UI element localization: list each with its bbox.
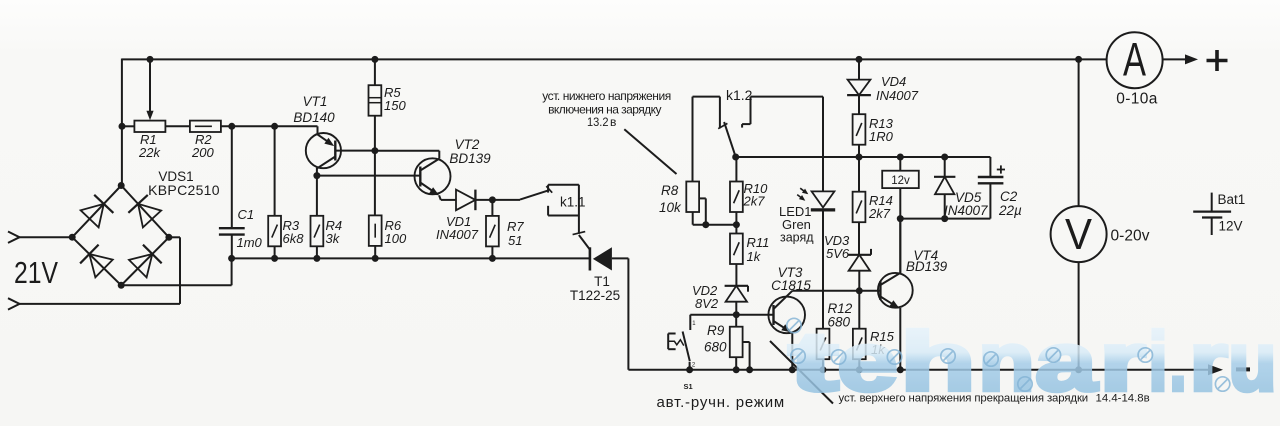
svg-text:r: r: [1100, 315, 1146, 408]
node VT3 emitter bottom: [789, 366, 796, 373]
svg-text:IN4007: IN4007: [436, 227, 479, 242]
relay coil K1 12v: [882, 171, 919, 188]
svg-text:R7: R7: [507, 219, 524, 234]
wire R3 top lead: [274, 126, 276, 216]
svg-text:R9: R9: [707, 323, 725, 338]
diode VD4: [848, 80, 871, 96]
svg-text:10k: 10k: [659, 200, 682, 215]
transistor VT4 collector: [880, 274, 899, 286]
svg-text:R8: R8: [661, 183, 679, 198]
transistor VT4 emitter: [880, 297, 897, 308]
input terminal upper: [8, 232, 20, 243]
bridge diode top-left: [81, 204, 104, 227]
input terminal lower: [8, 298, 20, 309]
svg-text:3k: 3k: [326, 231, 341, 246]
resistor R7: [486, 216, 499, 247]
resistor R12: [817, 329, 830, 360]
flyback diode VD5: [934, 176, 955, 178]
wire voltmeter top lead: [1078, 59, 1080, 206]
wire R9 top lead: [735, 315, 737, 327]
node R15 bottom: [856, 366, 863, 373]
wire R8 top to k1.2 left contact: [692, 97, 694, 182]
wire bottom output rail: [628, 369, 1208, 371]
capacitor C1: [231, 126, 233, 228]
zener diode VD3: [848, 254, 871, 256]
wire VD4 top lead: [858, 59, 860, 79]
node R8 wiper join: [702, 221, 709, 228]
wire R11 bottom lead: [735, 264, 737, 286]
node VD5 bottom: [941, 215, 948, 222]
svg-text:C2: C2: [1000, 189, 1018, 204]
node k1.2 common: [732, 154, 739, 161]
svg-text:k1.2: k1.2: [726, 87, 753, 103]
svg-text:r: r: [1190, 315, 1228, 408]
battery Bat1: [1211, 193, 1213, 212]
svg-text:13.2: 13.2: [587, 115, 609, 129]
svg-text:12v: 12v: [891, 175, 910, 187]
svg-text:5V6: 5V6: [826, 246, 850, 261]
node R9 bottom: [733, 366, 740, 373]
wire VT3 base node: [690, 314, 773, 316]
relay contact k1.2 right terminal: [750, 97, 752, 125]
transistor VT1 emitter lead: [317, 126, 319, 134]
wire R9 bottom lead: [735, 357, 737, 370]
svg-text:.: .: [1170, 315, 1187, 408]
wire R14-VD3: [858, 222, 860, 255]
svg-text:S1: S1: [684, 382, 693, 391]
relay contact k1.1 frame: [547, 185, 549, 193]
wire VD5 bottom lead: [944, 194, 946, 218]
svg-text:2k7: 2k7: [868, 206, 891, 221]
voltmeter V: [1051, 206, 1107, 262]
relay contact k1.2 lever: [724, 122, 736, 157]
transistor VT2 emitter: [420, 183, 437, 195]
svg-text:680: 680: [704, 340, 727, 355]
wire R14 top lead: [858, 157, 860, 192]
wire VT3 collector to VT4 base: [792, 290, 880, 292]
resistor R8 wiper: [699, 197, 706, 199]
node R5-R6-VT1-VT2: [371, 147, 378, 154]
diode VD1: [456, 190, 475, 211]
bridge diode bottom-left: [89, 254, 112, 277]
svg-text:200: 200: [191, 145, 214, 160]
wire R6 top lead: [374, 151, 376, 216]
svg-text:IN4007: IN4007: [876, 88, 919, 103]
svg-text:1k: 1k: [747, 249, 762, 264]
svg-text:BD139: BD139: [906, 259, 948, 274]
svg-text:Bat1: Bat1: [1218, 192, 1246, 207]
svg-text:1R0: 1R0: [869, 129, 894, 144]
resistor R5: [369, 85, 382, 116]
wire R4 top lead: [316, 176, 318, 216]
wire S1 lower lead: [689, 362, 691, 370]
node R6 bottom: [372, 255, 379, 262]
node bridge left vertex: [69, 234, 76, 241]
node R1 left: [119, 123, 126, 130]
capacitor C2: [989, 157, 991, 177]
node VD4 top: [856, 56, 863, 63]
node relay top: [897, 154, 904, 161]
wire VD2 bottom lead: [735, 302, 737, 315]
svg-text:авт.-ручн. режим: авт.-ручн. режим: [657, 394, 786, 411]
transistor VT1 base lead: [335, 150, 375, 152]
wire S1 upper lead: [689, 315, 691, 330]
node S1 bottom: [686, 366, 693, 373]
resistor R9 wiper: [743, 341, 750, 343]
svg-text:IN4007: IN4007: [944, 203, 988, 218]
svg-text:C1: C1: [238, 207, 255, 222]
node bridge top vertex: [118, 182, 125, 189]
svg-text:V: V: [1065, 210, 1093, 259]
resistor R3: [268, 216, 281, 247]
transistor VT4 base bar: [879, 281, 881, 300]
svg-text:22k: 22k: [138, 145, 161, 160]
resistor R9 (trimmer): [730, 327, 743, 358]
resistor R4: [311, 216, 324, 247]
node C1 top: [228, 123, 235, 130]
wire left vertical from top rail to bridge top: [121, 59, 123, 186]
wire R10 top lead: [735, 157, 737, 182]
zener diode VD2: [725, 285, 748, 287]
node R4 bottom: [313, 255, 320, 262]
thyristor T1 triangle: [593, 247, 612, 270]
wire voltmeter bottom lead: [1078, 262, 1080, 370]
bridge diode top-right: [138, 204, 161, 228]
wire VD3 bottom lead: [858, 271, 860, 291]
resistor R10: [730, 182, 743, 213]
transistor VT3 emitter: [774, 321, 790, 331]
wire R12 bottom lead: [822, 359, 824, 370]
transistor VT1 body: [306, 133, 341, 168]
bridge rectifier VDS1 outline: [72, 186, 169, 286]
svg-text:BD140: BD140: [293, 110, 335, 125]
svg-text:VT2: VT2: [455, 137, 480, 152]
node VT4 emitter bottom: [897, 366, 904, 373]
led LED1: [812, 191, 835, 207]
wire R7 top lead: [491, 200, 493, 216]
wire R3 bottom lead: [274, 246, 276, 258]
wire R1 wiper arrow: [149, 59, 151, 115]
node R3 bottom: [271, 255, 278, 262]
wire T1 anode out: [612, 257, 629, 259]
wire VD5 top lead: [944, 157, 946, 177]
svg-text:уст. нижнего напряжения: уст. нижнего напряжения: [542, 89, 671, 103]
wire k1.1 to T1 gate: [579, 235, 590, 250]
relay contact k1.1 lever: [520, 190, 549, 199]
node VD5 top: [941, 154, 948, 161]
svg-text:n: n: [979, 315, 1035, 408]
switch S1 lever: [683, 332, 690, 362]
transistor VT3 body: [768, 297, 805, 334]
node R12 bottom: [820, 366, 827, 373]
svg-text:BD139: BD139: [449, 151, 491, 166]
wire R7 bottom lead: [491, 246, 493, 258]
resistor R13: [853, 114, 866, 145]
switch S1 actuator: [667, 334, 669, 350]
wire bridge minus output: [121, 284, 231, 286]
node R9 wiper bottom: [746, 366, 753, 373]
svg-text:0-20v: 0-20v: [1111, 228, 1150, 245]
svg-text:150: 150: [384, 98, 406, 113]
resistor R14: [853, 192, 866, 223]
wire relay top lead: [899, 157, 901, 171]
node R5 top: [371, 56, 378, 63]
wire R1 left lead: [122, 125, 134, 127]
node relay bottom junction: [897, 215, 904, 222]
wire ammeter to plus: [1163, 58, 1193, 60]
relay contact k1.2 tick: [718, 123, 727, 128]
wire R15 bottom lead: [858, 359, 860, 370]
wire k1.2 common rail: [736, 156, 991, 158]
node C1 bottom: [228, 255, 235, 262]
led LED1 arrows: [800, 188, 807, 193]
svg-text:R11: R11: [747, 235, 770, 250]
transistor VT1 base bar: [334, 141, 336, 161]
watermark copyright marks: [791, 349, 805, 363]
wire internal bottom rail: [232, 257, 590, 259]
wire relay bottom to VT4 collector: [899, 188, 901, 273]
thyristor T1 cathode bar: [589, 247, 592, 270]
transistor VT1 collector: [316, 157, 335, 169]
wire VT1 collector to VT2 base: [317, 175, 420, 177]
svg-text:T1: T1: [594, 274, 610, 289]
wire R13 bottom lead: [858, 145, 860, 157]
node R10-R11 junction: [733, 221, 740, 228]
wire R5 bottom lead: [374, 116, 376, 151]
svg-text:KBPC2510: KBPC2510: [148, 182, 220, 198]
transistor VT3 collector: [774, 291, 793, 309]
node R3 top: [271, 123, 278, 130]
node VD2-R9-S1-VT3 base: [733, 311, 740, 318]
transistor VT4 body: [878, 273, 913, 308]
wire VD5-C2 bottom rail: [900, 218, 990, 220]
label plus terminal: [1207, 59, 1228, 63]
output arrow minus: [1208, 364, 1223, 375]
node voltmeter top: [1075, 56, 1082, 63]
ammeter A: [1107, 32, 1163, 88]
svg-text:VT1: VT1: [303, 94, 328, 109]
wire VD1 to k1.1: [475, 199, 520, 201]
resistor R1: [134, 121, 165, 132]
wire R6 bottom lead: [374, 246, 376, 259]
svg-text:u: u: [1229, 315, 1277, 408]
transistor VT3 base bar: [772, 305, 774, 325]
wire R4 bottom lead: [316, 246, 318, 258]
wire R15 top lead: [858, 291, 860, 329]
svg-text:h: h: [901, 315, 976, 408]
transistor VT2 base bar: [419, 167, 421, 187]
label C2 plus: [997, 169, 1005, 171]
annotation upper-threshold pointer: [770, 341, 833, 404]
svg-text:0-10a: 0-10a: [1116, 91, 1157, 108]
node top rail to R1 arrow: [147, 56, 154, 63]
resistor R8 (trimmer): [686, 182, 699, 213]
wire VT2 emitter to VD1: [441, 199, 456, 201]
node R7 top: [489, 196, 496, 203]
resistor R6: [369, 215, 382, 246]
wire R8 bottom: [692, 212, 694, 225]
resistor R11: [730, 234, 743, 265]
svg-text:51: 51: [508, 233, 522, 248]
wire R1-R2: [165, 125, 190, 127]
resistor R15: [853, 329, 866, 360]
svg-text:12V: 12V: [1219, 219, 1243, 234]
svg-text:i: i: [1149, 315, 1168, 408]
resistor R2: [190, 121, 221, 132]
svg-text:21V: 21V: [14, 255, 58, 290]
wire R12 top lead: [822, 291, 824, 329]
node VT1 collector junction: [313, 172, 320, 179]
svg-text:T122-25: T122-25: [570, 288, 620, 303]
svg-text:a: a: [1036, 315, 1098, 408]
wire VD4-R13: [858, 95, 860, 114]
node bridge right vertex: [165, 234, 172, 241]
node R7 bottom: [489, 255, 496, 262]
annotation pointer to R8: [624, 129, 676, 174]
node bridge bottom vertex: [118, 282, 125, 289]
relay contact k1.1 gate tick: [573, 232, 586, 235]
svg-text:6k8: 6k8: [283, 231, 305, 246]
wire R5 top lead: [374, 59, 376, 85]
transistor VT2 body: [415, 158, 451, 194]
svg-text:1m0: 1m0: [237, 235, 263, 250]
svg-text:t: t: [789, 315, 838, 408]
node voltmeter bottom: [1075, 366, 1082, 373]
label minus terminal: [1236, 367, 1250, 371]
svg-text:A: A: [1123, 33, 1146, 86]
bridge diode bottom-right: [129, 254, 152, 277]
svg-text:VD4: VD4: [881, 74, 906, 89]
wire k1.2 right to LED column: [751, 96, 824, 98]
wire top positive rail: [122, 58, 1107, 60]
svg-text:22µ: 22µ: [998, 203, 1022, 218]
svg-text:заряд: заряд: [780, 231, 814, 245]
node VD3-R15-VT4 base: [856, 287, 863, 294]
svg-text:100: 100: [385, 231, 407, 246]
wire lower input to bridge right vertex: [179, 237, 181, 304]
node R13-R14: [856, 154, 863, 161]
wire R2 right: [221, 125, 318, 127]
transistor VT2 collector: [420, 159, 439, 171]
svg-text:в: в: [610, 115, 616, 129]
svg-text:8V2: 8V2: [695, 296, 719, 311]
wire R10 bottom lead: [735, 212, 737, 234]
svg-text:k1.1: k1.1: [560, 195, 586, 210]
svg-text:2k7: 2k7: [743, 194, 766, 209]
